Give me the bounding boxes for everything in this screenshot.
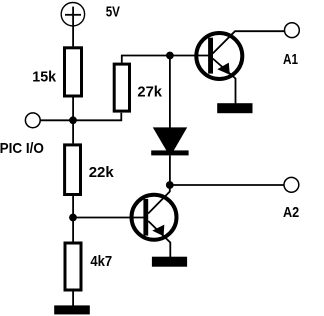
svg-text:4k7: 4k7 [90, 253, 112, 270]
svg-text:A2: A2 [283, 204, 299, 221]
svg-text:15k: 15k [32, 68, 56, 85]
svg-text:A1: A1 [283, 51, 298, 68]
svg-text:5V: 5V [106, 3, 120, 20]
svg-text:22k: 22k [89, 164, 115, 181]
svg-text:27k: 27k [137, 83, 162, 100]
svg-text:PIC I/O: PIC I/O [0, 140, 44, 157]
